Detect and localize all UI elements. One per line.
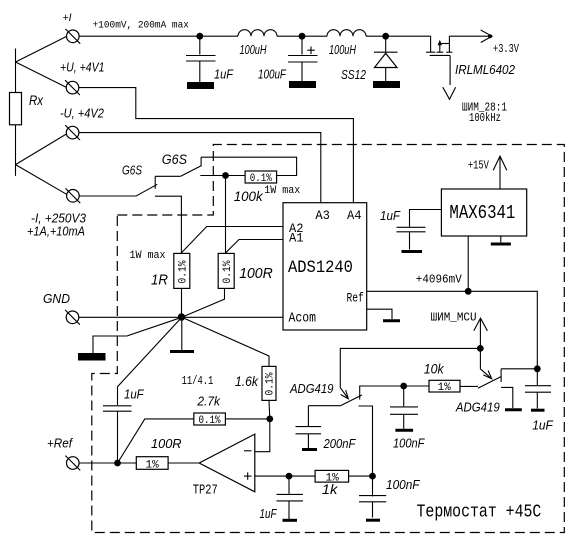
terminal -I [27,188,86,238]
svg-text:+3.3V: +3.3V [493,44,520,56]
ground tee 200nF [302,448,317,451]
wire Ref rail [367,291,538,369]
svg-text:1%: 1% [146,460,160,472]
wire diagonal to +U [16,62,67,87]
svg-text:1uF: 1uF [532,418,554,433]
svg-text:Термостат +45C: Термостат +45C [417,502,542,523]
ground Acom [383,319,400,322]
svg-text:ШИМ_MCU: ШИМ_MCU [431,312,477,324]
resistor 1R 0.1% [130,250,190,289]
ground tee 1uF right [531,409,545,412]
capacitor 100nF right [359,476,421,517]
node PWM [477,345,484,352]
terminal +U [60,62,104,95]
wire star to 1.6k [182,317,269,366]
capacitor 1uF MAX6341 [380,208,441,249]
svg-text:100uH: 100uH [329,44,356,58]
terminal -U [60,106,104,140]
relay switch G6S upper contact tick [200,157,202,166]
transistor Q1 IRLML6402 [426,36,515,77]
wire feedback node to opamp minus [255,419,270,452]
svg-text:SS12: SS12 [341,69,367,82]
node plus input [286,473,293,480]
svg-text:GND: GND [43,292,70,306]
ground tee 100nF right [366,519,380,522]
svg-text:ADG419: ADG419 [289,381,334,396]
wire star to ground tee [181,317,183,350]
svg-text:-U, +4V2: -U, +4V2 [60,106,104,121]
wire -I to switch [79,195,135,197]
wire -U to A3 [79,133,321,203]
terminal +I [63,12,81,44]
svg-text:100R: 100R [239,266,273,283]
svg-text:1uF: 1uF [124,387,145,402]
svg-text:100uF: 100uF [258,68,287,82]
svg-text:IRLML6402: IRLML6402 [455,62,515,77]
svg-text:100k: 100k [234,189,264,204]
wire node down to 100R [225,176,227,254]
node ref [465,288,472,295]
svg-text:1R: 1R [151,272,168,289]
capacitor 1uF input [186,36,234,82]
svg-text:G6S: G6S [122,164,142,177]
wire diagonal to +I [16,36,67,62]
svg-text:0.1%: 0.1% [264,372,277,396]
wire MAX gnd pin [500,236,502,242]
terminal +Ref [47,436,80,470]
wire +I rail [79,35,238,37]
node opamp feedback [266,416,273,423]
svg-text:ADG419: ADG419 [455,400,500,415]
wire opamp out to 100R [168,462,199,464]
svg-text:+U, +4V1: +U, +4V1 [60,62,104,75]
inductor L2 100uH [327,30,366,58]
svg-text:1uF: 1uF [214,67,234,82]
ground bar 100uF [289,81,316,88]
wire +U to A4 [79,88,354,203]
svg-text:1W max: 1W max [130,250,166,263]
svg-text:100nF: 100nF [393,436,425,451]
net ШИМ_MCU arrow [431,312,488,368]
resistor Rx [10,93,22,125]
ground tee 1uF MAX [402,250,423,253]
inductor L1 100uH [238,30,277,58]
node 10k left [400,383,407,390]
ground tee star [170,350,194,353]
svg-text:1.6k: 1.6k [235,373,259,389]
svg-text:10k: 10k [424,361,445,377]
wire left kelvin vertical bottom [15,125,17,176]
wire Acom right pin to ground [367,309,392,319]
wire +3.3V output arrow [449,30,519,57]
power +15V arrow [468,156,507,189]
op-amp U TP27 [193,434,255,498]
svg-text:A4: A4 [347,209,362,223]
relay switch G6S lower contact tick [154,176,156,189]
arrow control right ADG419 [480,369,491,379]
svg-text:11/4.1: 11/4.1 [182,375,214,388]
svg-text:100nF: 100nF [386,477,421,492]
wire A2 to 1R top [182,227,284,253]
analog switch ADG419 left [289,381,404,476]
svg-text:+4096mV: +4096mV [416,274,462,286]
wire 100R bottom to star node [182,288,225,317]
svg-text:2.7k: 2.7k [196,394,220,409]
dashed thermostat border [92,145,565,533]
wire opamp plus input [255,475,315,477]
ground tee 1uF opamp [283,519,298,522]
svg-text:+1A,+10mA: +1A,+10mA [27,225,85,239]
wire 100R to +Ref terminal [79,462,136,464]
svg-text:+100mV, 200mA max: +100mV, 200mA max [93,19,189,31]
svg-text:+Ref: +Ref [47,436,74,450]
svg-text:100kHz: 100kHz [469,112,501,125]
svg-text:Ref: Ref [347,291,364,306]
ground bar input cap [187,82,214,89]
svg-text:+I: +I [63,12,72,24]
svg-text:100uH: 100uH [240,44,267,58]
node 1uF right [534,365,541,372]
wire L1 to L2 [277,35,327,37]
capacitor 1uF opamp [260,476,304,521]
wire 1k to node [349,475,373,477]
wire star to sense bar [93,317,182,353]
node star [178,313,185,320]
wire GND rail [79,316,283,318]
svg-text:+15V: +15V [468,159,490,173]
node top2 [299,33,306,40]
node top3 [382,33,389,40]
svg-text:0.1%: 0.1% [222,260,235,284]
analog switch ADG419 right [455,369,537,415]
wire 1.6k bottom to node [268,400,271,419]
svg-text:MAX6341: MAX6341 [449,203,515,225]
terminal GND [43,292,80,325]
ground bar sense [78,353,106,361]
resistor 100k 0.1% [234,171,301,204]
wire diagonal to -I [16,165,67,195]
node +Ref [114,460,121,467]
wire 1R bottom to star node [181,288,183,317]
wire A1 to 100R top [226,240,283,253]
svg-text:-I, +250V3: -I, +250V3 [31,211,86,225]
svg-text:A3: A3 [315,209,330,223]
ground bar SS12 [373,81,400,88]
capacitor 100uF [258,36,318,82]
capacitor 100nF mid [390,386,425,451]
resistor 2.7k 0.1% [194,394,270,427]
wire MAX out to ref node [467,236,469,291]
wire L2 to mosfet [366,35,431,37]
wire mosfet gate to PWM arrow [443,55,507,125]
svg-text:1uF: 1uF [380,208,401,223]
svg-text:0.1%: 0.1% [199,415,222,427]
arrow control left ADG419 [340,388,348,399]
svg-text:TP27: TP27 [193,482,218,498]
IC MAX6341 [441,189,526,236]
svg-text:1%: 1% [438,382,452,394]
svg-text:ADS1240: ADS1240 [288,257,353,277]
wire 2.7k left to +Ref node [118,419,194,463]
ground tee 100nF mid [395,429,413,432]
wire upper contact to 100k right [201,157,297,175]
relay switch G6S upper blade [181,166,201,177]
capacitor 1uF ref filter [103,387,145,463]
wire diagonal to -U [16,134,67,165]
diode SS12 [341,36,398,82]
node 100nF right [369,473,376,480]
svg-text:Acom: Acom [289,311,317,326]
svg-text:1uF: 1uF [260,508,278,522]
resistor 1.6k 0.1% [235,366,277,400]
node top1 [196,33,203,40]
wire lower path to 1R [155,196,181,253]
node 100k left [222,172,229,179]
resistor 100R 1% [136,436,181,472]
wire PWM to left switch [340,348,480,387]
svg-text:0.1%: 0.1% [177,260,190,284]
svg-text:1W max: 1W max [264,185,300,198]
capacitor 1uF right [525,369,554,433]
wire switch common [155,175,181,177]
svg-text:1k: 1k [322,482,339,497]
svg-text:0.1%: 0.1% [250,173,273,185]
svg-text:100R: 100R [151,436,182,451]
svg-text:G6S: G6S [162,151,187,167]
resistor 100R 0.1% [218,253,273,288]
svg-text:200nF: 200nF [323,436,356,451]
svg-text:Rx: Rx [29,92,44,108]
resistor 1k 1% [315,470,349,497]
resistor 10k 1% [404,361,460,394]
wire 100k left bypass [200,175,245,177]
relay switch G6S lower blade [136,184,158,196]
wire star to 1uF ref filter [118,317,182,405]
ground tee ADG419 right [505,408,522,411]
svg-text:A1: A1 [289,231,304,245]
capacitor 200nF [296,406,356,452]
wire left kelvin vertical top [15,49,17,93]
IC ADS1240 [283,203,367,330]
ground tee MAX [491,243,511,246]
